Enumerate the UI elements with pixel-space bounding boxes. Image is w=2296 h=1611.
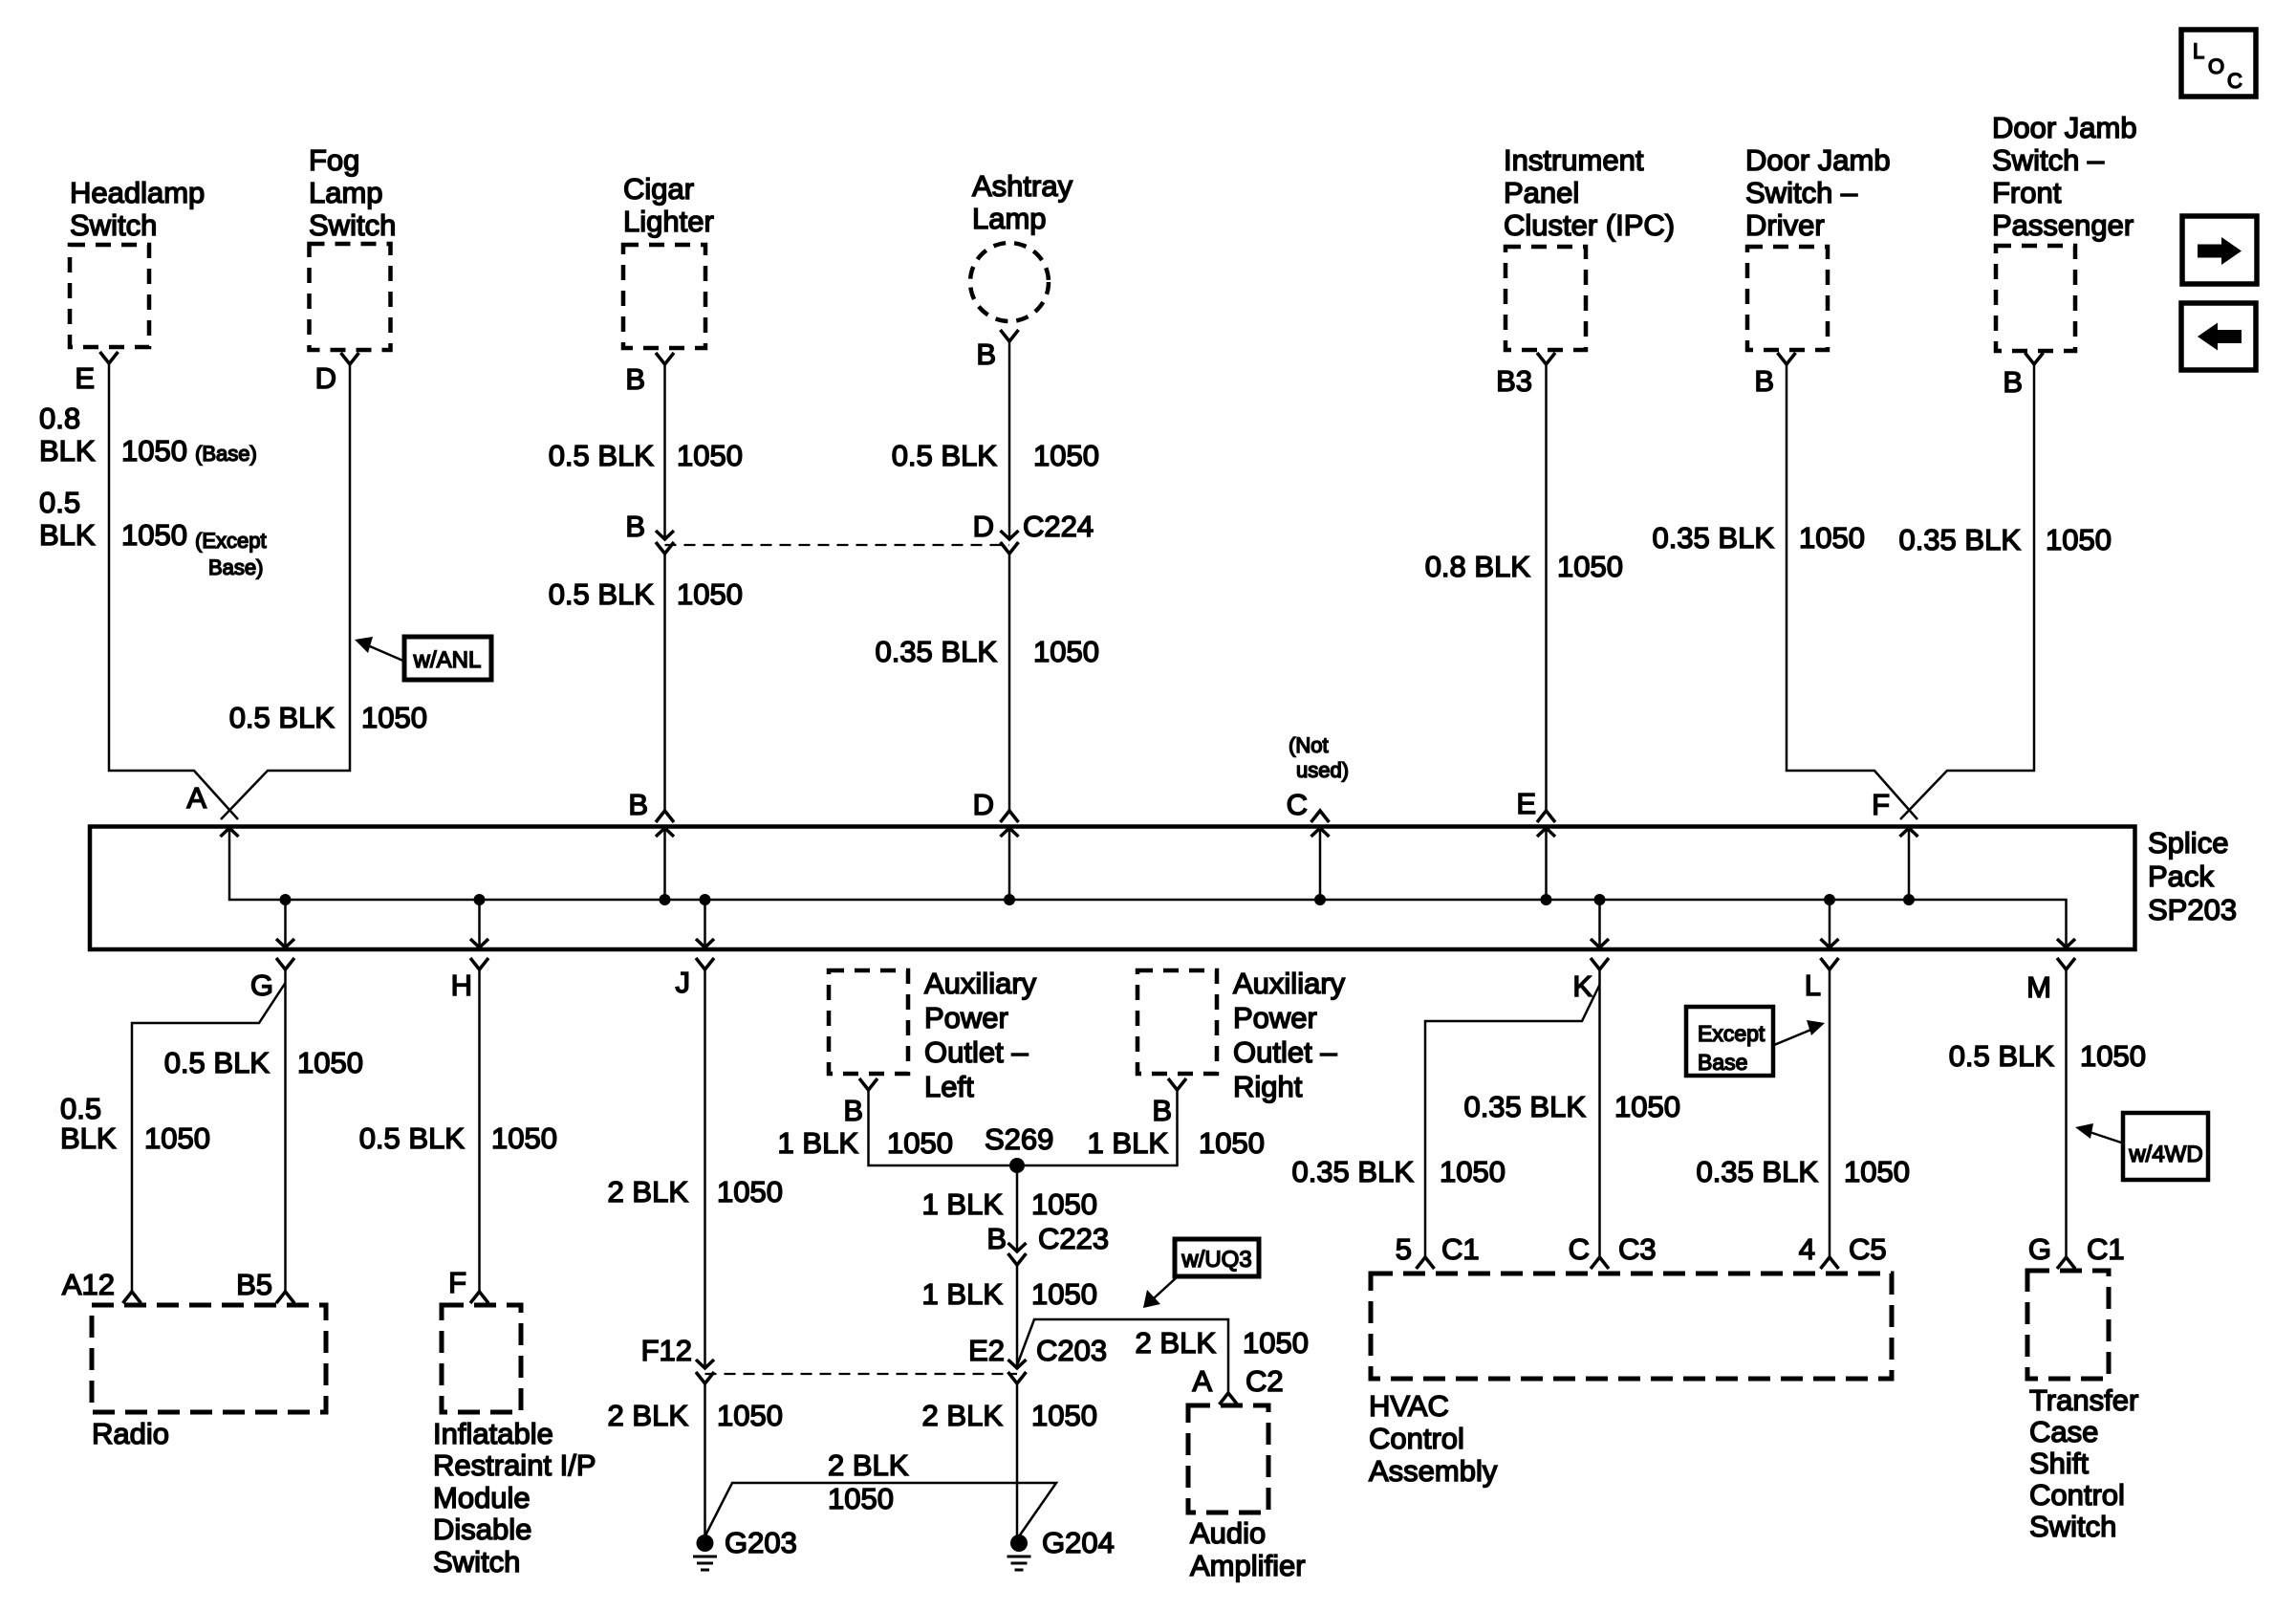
- svg-text:used): used): [1296, 758, 1349, 782]
- svg-text:BLK: BLK: [39, 518, 96, 552]
- svg-text:Left: Left: [924, 1070, 974, 1103]
- svg-text:1050: 1050: [297, 1046, 363, 1079]
- wire aux left B to S269: [869, 1090, 1010, 1165]
- instrument panel cluster box: [1505, 247, 1586, 350]
- bus junction dots: [280, 894, 292, 905]
- svg-text:B: B: [1754, 364, 1774, 398]
- svg-text:0.5 BLK: 0.5 BLK: [549, 439, 655, 472]
- wire E2 to ground G204: [1016, 1383, 1019, 1539]
- svg-text:2 BLK: 2 BLK: [608, 1175, 689, 1208]
- svg-text:G: G: [2028, 1232, 2051, 1266]
- svg-text:Base): Base): [208, 555, 263, 579]
- svg-text:1050: 1050: [1440, 1155, 1505, 1188]
- wire S269 to C223: [1016, 1165, 1019, 1252]
- splice pin K connector: [1591, 958, 1609, 969]
- svg-text:Lighter: Lighter: [623, 205, 714, 238]
- svg-text:Front: Front: [1992, 176, 2062, 209]
- svg-text:1050: 1050: [1033, 439, 1099, 472]
- svg-text:Door Jamb: Door Jamb: [1992, 111, 2137, 144]
- splice pin B connector: [656, 811, 674, 822]
- svg-text:0.8 BLK: 0.8 BLK: [1425, 550, 1531, 583]
- inline connector dashed line F12-E2: [705, 1373, 1018, 1375]
- splice pin D connector: [1001, 811, 1019, 822]
- svg-text:0.8: 0.8: [39, 402, 80, 435]
- svg-text:0.35 BLK: 0.35 BLK: [1652, 521, 1774, 555]
- wire branch G to radio A12: [132, 983, 286, 1292]
- svg-text:Cluster (IPC): Cluster (IPC): [1504, 208, 1675, 242]
- wire fog lamp D to splice A: [221, 364, 350, 819]
- svg-text:0.35 BLK: 0.35 BLK: [875, 635, 997, 668]
- svg-text:(Base): (Base): [195, 442, 257, 466]
- wire splice M to transfer case C1: [2065, 969, 2068, 1257]
- svg-text:5: 5: [1396, 1232, 1412, 1266]
- svg-text:1050: 1050: [677, 577, 743, 611]
- svg-text:Panel: Panel: [1504, 176, 1579, 209]
- svg-text:1050: 1050: [121, 518, 187, 552]
- aux left pin connector B: [859, 1078, 877, 1090]
- svg-text:0.35 BLK: 0.35 BLK: [1291, 1155, 1414, 1188]
- svg-text:D: D: [315, 361, 336, 395]
- svg-text:C: C: [1569, 1232, 1590, 1266]
- svg-text:Assembly: Assembly: [1369, 1454, 1498, 1488]
- svg-text:Door Jamb: Door Jamb: [1745, 143, 1891, 177]
- svg-text:1 BLK: 1 BLK: [922, 1277, 1004, 1311]
- w/ANL callout box: [404, 637, 491, 680]
- svg-text:1 BLK: 1 BLK: [922, 1187, 1004, 1221]
- svg-text:B: B: [628, 788, 648, 821]
- svg-text:Switch –: Switch –: [1745, 176, 1858, 209]
- svg-text:1050: 1050: [828, 1482, 894, 1515]
- radio box: [92, 1305, 326, 1412]
- svg-text:1050: 1050: [121, 434, 187, 468]
- svg-text:BLK: BLK: [60, 1121, 117, 1155]
- svg-text:C224: C224: [1023, 510, 1094, 543]
- svg-text:E: E: [75, 361, 95, 395]
- svg-text:Restraint I/P: Restraint I/P: [433, 1448, 596, 1482]
- ground G204: [1010, 1535, 1028, 1552]
- svg-text:B: B: [625, 510, 645, 543]
- svg-text:1050: 1050: [717, 1399, 783, 1432]
- cigar lighter box: [623, 245, 705, 348]
- svg-text:2 BLK: 2 BLK: [828, 1448, 909, 1482]
- Except Base arrow: [1774, 1029, 1813, 1045]
- svg-text:S269: S269: [985, 1122, 1053, 1156]
- svg-text:0.35 BLK: 0.35 BLK: [1696, 1155, 1818, 1188]
- svg-text:C223: C223: [1038, 1222, 1109, 1255]
- svg-text:Amplifier: Amplifier: [1190, 1549, 1306, 1582]
- svg-text:A: A: [1192, 1364, 1212, 1398]
- ground G203: [697, 1535, 714, 1552]
- driver pin connector: [1778, 353, 1796, 364]
- svg-text:Transfer: Transfer: [2029, 1383, 2138, 1417]
- wire cigar B to C224: [663, 364, 666, 539]
- svg-text:1050: 1050: [1031, 1399, 1097, 1432]
- svg-text:Fog: Fog: [309, 143, 359, 177]
- svg-text:1050: 1050: [1243, 1326, 1309, 1360]
- ashtray lamp circle: [970, 243, 1049, 321]
- svg-text:Power: Power: [924, 1001, 1008, 1034]
- svg-text:0.5 BLK: 0.5 BLK: [549, 577, 655, 611]
- svg-text:0.5: 0.5: [60, 1092, 101, 1125]
- wire splice L to HVAC C5: [1829, 969, 1831, 1257]
- svg-text:Splice: Splice: [2148, 826, 2228, 860]
- ashtray lamp pin connector: [1001, 330, 1019, 341]
- svg-text:G204: G204: [1042, 1526, 1115, 1559]
- svg-text:Instrument: Instrument: [1504, 143, 1644, 177]
- splice pin C connector: [1311, 811, 1330, 822]
- svg-text:HVAC: HVAC: [1369, 1389, 1449, 1423]
- svg-text:1050: 1050: [1031, 1277, 1097, 1311]
- splice pin J connector: [696, 958, 714, 969]
- svg-text:0.5 BLK: 0.5 BLK: [892, 439, 998, 472]
- svg-text:w/4WD: w/4WD: [2128, 1142, 2202, 1167]
- audio amplifier box: [1188, 1405, 1268, 1513]
- wire headlamp E to splice A: [109, 363, 238, 819]
- door jamb driver box: [1747, 247, 1828, 350]
- svg-text:2 BLK: 2 BLK: [608, 1399, 689, 1432]
- svg-text:Switch –: Switch –: [1992, 143, 2105, 177]
- svg-text:Control: Control: [2029, 1478, 2125, 1512]
- headlamp switch box: [70, 245, 149, 347]
- splice pin L connector: [1821, 958, 1839, 969]
- svg-text:Passenger: Passenger: [1992, 208, 2134, 242]
- svg-text:1 BLK: 1 BLK: [1088, 1126, 1169, 1160]
- svg-text:A12: A12: [62, 1268, 115, 1301]
- svg-text:1050: 1050: [1614, 1090, 1680, 1123]
- svg-text:B3: B3: [1496, 364, 1532, 398]
- svg-text:0.5 BLK: 0.5 BLK: [164, 1046, 271, 1079]
- svg-text:Headlamp: Headlamp: [70, 176, 205, 209]
- svg-text:C: C: [2227, 69, 2242, 93]
- svg-text:Case: Case: [2029, 1415, 2098, 1448]
- svg-text:Radio: Radio: [92, 1417, 169, 1450]
- wire E2 branch to audio amplifier: [1017, 1319, 1228, 1393]
- bus down arrows G H J K L: [284, 900, 287, 947]
- svg-text:A: A: [186, 781, 206, 815]
- svg-text:0.5 BLK: 0.5 BLK: [1949, 1039, 2055, 1073]
- splice pin H connector: [470, 958, 488, 969]
- auxiliary power outlet left box: [829, 970, 908, 1074]
- svg-text:Lamp: Lamp: [972, 202, 1047, 235]
- svg-text:Switch: Switch: [433, 1545, 520, 1578]
- splice pack internal bus: [229, 828, 2067, 947]
- svg-text:1050: 1050: [1033, 635, 1099, 668]
- LOC legend box: [2181, 30, 2256, 97]
- svg-text:E: E: [1516, 787, 1536, 820]
- inline connector C224 dashed line: [665, 544, 1010, 546]
- svg-text:M: M: [2026, 970, 2051, 1004]
- svg-text:Switch: Switch: [2029, 1510, 2116, 1543]
- svg-text:E2: E2: [968, 1334, 1005, 1367]
- svg-text:K: K: [1572, 969, 1592, 1003]
- svg-text:B: B: [2003, 365, 2023, 399]
- svg-text:2 BLK: 2 BLK: [922, 1399, 1004, 1432]
- svg-text:Cigar: Cigar: [623, 172, 694, 206]
- svg-text:Control: Control: [1369, 1422, 1464, 1455]
- right arrow legend box: [2182, 216, 2257, 284]
- svg-text:C203: C203: [1036, 1334, 1107, 1367]
- headlamp switch pin connector: [100, 352, 119, 363]
- wire splice K to HVAC C3: [1598, 969, 1601, 1257]
- svg-text:J: J: [676, 966, 691, 999]
- svg-text:Power: Power: [1233, 1001, 1317, 1034]
- svg-text:Driver: Driver: [1745, 208, 1825, 242]
- svg-text:C1: C1: [1441, 1232, 1480, 1266]
- svg-text:Switch: Switch: [309, 208, 396, 242]
- svg-text:1050: 1050: [1199, 1126, 1265, 1160]
- svg-text:C2: C2: [1245, 1364, 1284, 1398]
- svg-text:Module: Module: [433, 1481, 531, 1514]
- w/UQ3 callout box: [1175, 1239, 1259, 1276]
- fog lamp switch box: [310, 244, 391, 350]
- svg-text:0.5: 0.5: [39, 486, 80, 519]
- wire ground link G203-G204: [705, 1483, 1057, 1536]
- splice S269 junction: [1009, 1158, 1025, 1173]
- w/4WD arrow: [2090, 1132, 2124, 1143]
- left arrow legend box: [2181, 303, 2256, 370]
- splice pack SP203 body: [90, 827, 2135, 950]
- transfer case shift control switch box: [2027, 1271, 2109, 1379]
- wire splice J to F12: [704, 969, 706, 1368]
- svg-text:Lamp: Lamp: [309, 176, 383, 209]
- splice pin G connector: [276, 958, 294, 969]
- svg-text:Switch: Switch: [70, 208, 157, 242]
- svg-text:L: L: [2193, 39, 2204, 63]
- svg-text:1050: 1050: [887, 1126, 953, 1160]
- svg-text:1050: 1050: [361, 701, 427, 734]
- svg-text:Shift: Shift: [2029, 1447, 2089, 1480]
- svg-text:Ashtray: Ashtray: [972, 169, 1073, 203]
- svg-text:L: L: [1805, 969, 1821, 1002]
- svg-text:D: D: [973, 788, 994, 821]
- svg-text:0.5 BLK: 0.5 BLK: [229, 701, 336, 734]
- svg-text:1050: 1050: [677, 439, 743, 472]
- fog lamp switch pin connector: [341, 353, 359, 364]
- svg-text:Auxiliary: Auxiliary: [1233, 967, 1346, 1000]
- svg-text:C5: C5: [1849, 1232, 1887, 1266]
- passenger pin connector: [2025, 353, 2044, 364]
- svg-text:B: B: [1152, 1094, 1172, 1127]
- auxiliary power outlet right box: [1137, 970, 1217, 1074]
- svg-text:Audio: Audio: [1190, 1516, 1266, 1550]
- svg-text:B5: B5: [236, 1268, 272, 1301]
- svg-text:B: B: [625, 362, 645, 396]
- svg-text:F: F: [1872, 788, 1890, 821]
- svg-text:0.5 BLK: 0.5 BLK: [359, 1121, 466, 1155]
- svg-text:2 BLK: 2 BLK: [1136, 1326, 1217, 1360]
- wire splice G to radio B5: [284, 969, 287, 1292]
- bus up arrows B D C E F: [663, 828, 666, 900]
- wire cigar to splice B: [663, 554, 666, 811]
- wire C223 to E2: [1016, 1265, 1019, 1368]
- svg-text:SP203: SP203: [2148, 893, 2237, 926]
- svg-text:0.35 BLK: 0.35 BLK: [1898, 523, 2021, 556]
- svg-text:F: F: [448, 1266, 466, 1299]
- svg-text:4: 4: [1799, 1232, 1815, 1266]
- w/ANL arrow: [370, 646, 405, 662]
- inflatable restraint box: [442, 1305, 521, 1412]
- svg-text:C1: C1: [2087, 1232, 2125, 1266]
- aux right pin connector B: [1168, 1078, 1186, 1090]
- wire ashtray to splice D: [1008, 554, 1011, 811]
- svg-text:w/UQ3: w/UQ3: [1180, 1247, 1251, 1273]
- svg-text:Pack: Pack: [2148, 860, 2214, 893]
- splice pin M connector: [2057, 958, 2075, 969]
- wire splice H to inflatable restraint F: [478, 969, 481, 1292]
- svg-text:C3: C3: [1618, 1232, 1657, 1266]
- svg-text:1050: 1050: [144, 1121, 210, 1155]
- svg-text:Outlet –: Outlet –: [1233, 1035, 1337, 1069]
- wire F12 to ground G203: [704, 1383, 706, 1539]
- svg-text:F12: F12: [641, 1334, 692, 1367]
- svg-text:1050: 1050: [1844, 1155, 1910, 1188]
- svg-text:Except: Except: [1698, 1021, 1765, 1046]
- svg-text:D: D: [973, 510, 994, 543]
- svg-text:Inflatable: Inflatable: [433, 1417, 553, 1450]
- svg-text:1050: 1050: [717, 1175, 783, 1208]
- wire ashtray B to C224: [1008, 341, 1011, 539]
- svg-text:1050: 1050: [1557, 550, 1623, 583]
- w/UQ3 arrow: [1154, 1277, 1177, 1298]
- wire aux right B to S269: [1025, 1090, 1178, 1165]
- svg-text:w/ANL: w/ANL: [413, 647, 482, 673]
- wire branch K to HVAC C1: [1425, 985, 1600, 1257]
- svg-text:B: B: [843, 1094, 863, 1127]
- svg-text:1050: 1050: [491, 1121, 557, 1155]
- svg-text:B: B: [986, 1222, 1007, 1255]
- svg-text:Disable: Disable: [433, 1513, 531, 1546]
- wire passenger B to splice F: [1900, 364, 2034, 819]
- svg-text:0.35 BLK: 0.35 BLK: [1463, 1090, 1586, 1123]
- svg-text:1050: 1050: [2080, 1039, 2146, 1073]
- w/4WD callout box: [2123, 1113, 2208, 1180]
- svg-text:1 BLK: 1 BLK: [778, 1126, 859, 1160]
- svg-text:(Except: (Except: [195, 529, 267, 553]
- wire driver B to splice F: [1787, 364, 1917, 819]
- HVAC control assembly box: [1371, 1274, 1892, 1379]
- svg-text:Auxiliary: Auxiliary: [924, 967, 1037, 1000]
- svg-text:B: B: [976, 337, 996, 371]
- cigar lighter pin connector: [656, 353, 674, 364]
- svg-text:C: C: [1287, 788, 1308, 821]
- IPC pin connector: [1537, 353, 1555, 364]
- svg-text:1050: 1050: [2046, 523, 2112, 556]
- svg-text:(Not: (Not: [1289, 733, 1329, 757]
- svg-text:1050: 1050: [1799, 521, 1865, 555]
- svg-text:Right: Right: [1233, 1070, 1303, 1103]
- svg-text:BLK: BLK: [39, 434, 96, 468]
- splice pin E connector: [1537, 811, 1555, 822]
- svg-text:O: O: [2208, 54, 2224, 78]
- svg-text:1050: 1050: [1031, 1187, 1097, 1221]
- svg-text:H: H: [451, 969, 472, 1002]
- Except Base callout box: [1686, 1007, 1773, 1076]
- svg-text:G203: G203: [725, 1526, 797, 1559]
- door jamb passenger box: [1996, 246, 2075, 351]
- svg-text:G: G: [250, 969, 273, 1002]
- svg-text:Base: Base: [1698, 1050, 1747, 1075]
- svg-text:Outlet –: Outlet –: [924, 1035, 1029, 1069]
- wire IPC B3 to splice E: [1545, 364, 1548, 811]
